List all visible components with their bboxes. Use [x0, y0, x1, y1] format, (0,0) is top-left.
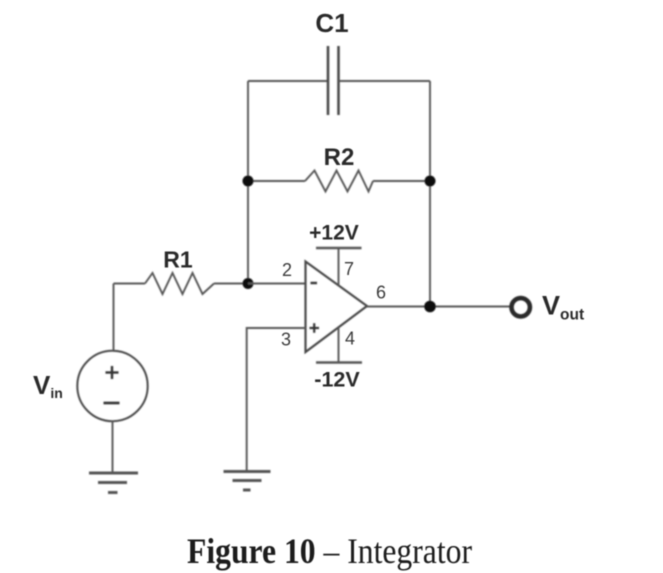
svg-text:R2: R2 — [324, 144, 355, 171]
wire: feedback loop left vertical — [247, 81, 249, 284]
svg-text:+12V: +12V — [309, 222, 359, 245]
resistor R1 — [114, 273, 249, 294]
wire: pin 3 to ground branch — [247, 328, 306, 472]
node: output junction — [424, 301, 436, 313]
wire: R1 corner down to Vin — [113, 284, 115, 351]
wire: op-amp output to Vout — [367, 306, 510, 308]
node: R2 right junction — [425, 176, 436, 187]
wire: pin 4 to -12V rail — [338, 328, 340, 363]
+12V supply bar — [316, 247, 362, 249]
ground under Vin — [89, 473, 138, 493]
capacitor C1 — [328, 46, 339, 115]
source Vin circle — [77, 351, 147, 421]
op-amp plus sign — [310, 323, 320, 333]
svg-text:Vout: Vout — [542, 291, 584, 324]
ground under pin 3 — [224, 472, 271, 491]
wire: top horizontal left of C1 — [248, 80, 328, 82]
svg-text:Figure 10 – Integrator: Figure 10 – Integrator — [187, 531, 472, 571]
op-amp U1 triangle — [306, 262, 368, 353]
resistor R2 — [248, 171, 430, 192]
-12V supply bar — [316, 361, 362, 363]
wire: top horizontal right of C1 — [339, 80, 431, 82]
svg-text:C1: C1 — [315, 8, 348, 38]
svg-text:Vin: Vin — [33, 370, 63, 401]
svg-text:4: 4 — [345, 329, 355, 349]
wire: Vin bottom to ground — [112, 421, 114, 473]
node: R2 left junction — [243, 176, 254, 187]
op-amp minus sign — [311, 282, 318, 284]
wire: R1 node to op-amp pin 2 — [248, 283, 306, 285]
svg-text:3: 3 — [281, 330, 291, 350]
svg-text:6: 6 — [376, 283, 386, 303]
terminal Vout circle — [512, 298, 530, 316]
Vin minus sign — [104, 402, 120, 405]
node: inverting input junction — [243, 278, 254, 289]
svg-text:7: 7 — [344, 259, 354, 279]
svg-text:-12V: -12V — [314, 368, 360, 392]
svg-text:R1: R1 — [163, 247, 193, 273]
Vin plus sign — [106, 366, 119, 379]
wire: pin 7 to +12V rail — [338, 248, 340, 285]
svg-text:2: 2 — [282, 260, 292, 280]
wire: feedback loop right vertical — [429, 81, 431, 307]
